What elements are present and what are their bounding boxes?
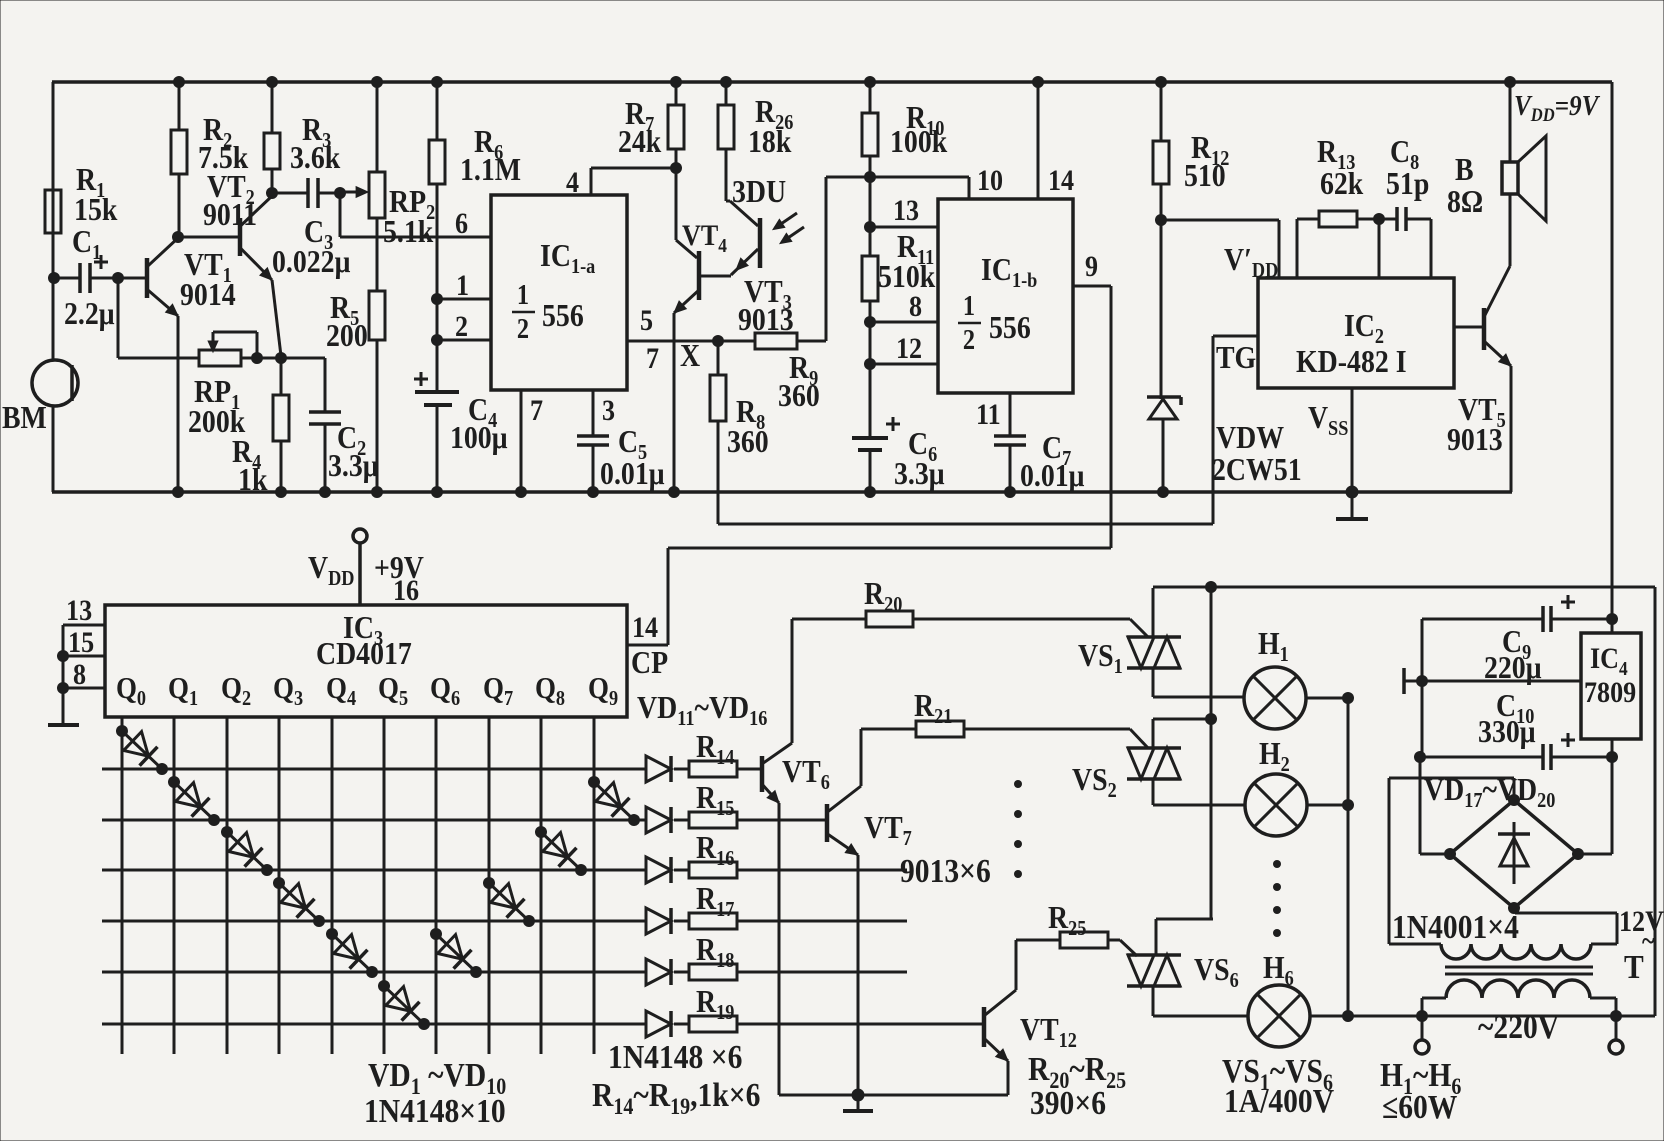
node C1 tap: [48, 272, 60, 284]
node H2 common: [1342, 799, 1354, 811]
svg-text:1N4001×4: 1N4001×4: [1392, 908, 1519, 945]
node R4 top: [275, 352, 287, 364]
wire RP2 wiper arrow: [342, 191, 360, 194]
resistor R7 24k: [668, 105, 684, 149]
transistor VT1: [145, 258, 150, 298]
lamp H1: [1244, 667, 1306, 729]
capacitor C4 100u: [415, 390, 459, 394]
wire pin 15 left: [63, 655, 105, 658]
node R10 bottom: [864, 171, 876, 183]
node VT1 collector R2 junction: [172, 231, 184, 243]
svg-text:3: 3: [602, 394, 615, 427]
wire pin5 X line: [627, 340, 718, 343]
node trunk top: [1205, 581, 1217, 593]
wire pin 13: [870, 226, 938, 229]
svg-text:1k: 1k: [238, 462, 268, 497]
wire VD13 to R16: [674, 869, 689, 872]
svg-text:62k: 62k: [1320, 166, 1364, 201]
svg-text:2: 2: [517, 313, 529, 344]
wire RP1 to R4 node: [241, 357, 281, 360]
wire VS1 MT1 to H1: [1152, 668, 1155, 697]
wire R9 up to pin10 node: [825, 177, 828, 341]
diode VD2: [174, 782, 214, 820]
zener diode VDW 2CW51: [1147, 395, 1181, 399]
svg-text:2.2μ: 2.2μ: [64, 296, 115, 331]
resistor R14: [689, 761, 737, 777]
wire pin 14 CP: [627, 644, 668, 647]
capacitor C10 330u: [1420, 756, 1543, 759]
wire VT2 emitter to R4 node: [272, 280, 281, 356]
svg-text:12: 12: [896, 332, 922, 365]
wire VT6 collector up: [791, 619, 794, 743]
resistor R26 18k: [718, 105, 734, 149]
wire lamp common vertical: [1347, 698, 1350, 1016]
node RP1 wiper join: [251, 352, 263, 364]
svg-text:1: 1: [456, 269, 469, 302]
node C7 ground: [1004, 486, 1016, 498]
resistor R17: [689, 913, 737, 929]
diode VD5: [332, 934, 372, 972]
wire R15 to VT7 base: [737, 819, 825, 822]
wire IC4 bottom: [1611, 739, 1614, 757]
wire pin 3 to C5: [592, 390, 595, 436]
transformer primary coil: [1421, 998, 1424, 1016]
node C10 right: [1606, 751, 1618, 763]
wire Q1 column: [173, 717, 176, 1054]
wire VT7 emitter down: [857, 855, 860, 1095]
svg-text:556: 556: [542, 298, 584, 333]
svg-text:4: 4: [566, 166, 579, 199]
node C2 ground: [319, 486, 331, 498]
wire Q0 column: [121, 717, 124, 1054]
svg-text:9014: 9014: [180, 277, 236, 312]
wire secondary left up: [1388, 778, 1391, 944]
node R10 top bus: [864, 76, 876, 88]
wire C1 to VT1 base: [90, 277, 147, 280]
resistor R19: [689, 1016, 737, 1032]
svg-text:3.6k: 3.6k: [290, 140, 341, 175]
transformer core: [1445, 966, 1593, 969]
wire C6 to ground: [869, 450, 872, 492]
node RP2 top bus: [371, 76, 383, 88]
wire Q6 column: [435, 717, 438, 1054]
resistor R4 1k: [273, 395, 289, 441]
diode VD12: [646, 807, 671, 833]
svg-text:6: 6: [455, 207, 468, 240]
resistor R20 390: [792, 618, 866, 621]
resistor R10 100k: [862, 113, 878, 156]
wire VS2 MT2: [1153, 718, 1211, 721]
resistor R16: [689, 862, 737, 878]
node R7 pin4 junction: [670, 162, 682, 174]
node VT4 emitter ground: [668, 486, 680, 498]
resistor R6 1.1M: [429, 140, 445, 184]
wire C2 to ground: [324, 424, 327, 492]
diode VD6: [384, 986, 424, 1024]
wire top VDD bus: [52, 80, 1612, 84]
svg-text:13: 13: [66, 594, 92, 627]
IC regulator IC4 7809 box: [1581, 633, 1641, 739]
wire AC top line: [1153, 586, 1655, 589]
svg-text:1: 1: [517, 279, 529, 310]
capacitor C6 3.3u: [852, 436, 888, 440]
resistor R18: [689, 964, 737, 980]
svg-text:18k: 18k: [748, 124, 792, 159]
wire bridge left up: [1420, 853, 1450, 856]
resistor R2: [171, 130, 187, 174]
wire node to C2: [281, 357, 325, 360]
potentiometer RP2 5.1k: [369, 172, 385, 218]
svg-text:360: 360: [778, 378, 820, 413]
svg-text:7: 7: [646, 342, 659, 375]
node IC4 gnd tap: [1416, 675, 1428, 687]
wire R14 to VT6 base: [737, 768, 760, 771]
wire speaker feed: [1509, 82, 1512, 162]
wire Q7 column: [488, 717, 491, 1054]
wire left pins common: [62, 625, 65, 725]
resistor R3: [264, 133, 280, 169]
wire VT12 collector up: [1015, 940, 1018, 990]
svg-text:3.3μ: 3.3μ: [894, 456, 945, 491]
transistor VT4: [675, 168, 678, 240]
node trunk VS2: [1205, 713, 1217, 725]
terminal AC right: [1615, 1016, 1618, 1040]
resistor R11 510k: [862, 256, 878, 301]
node R13 C8 junction: [1373, 213, 1385, 225]
svg-text:CP: CP: [631, 645, 668, 680]
svg-text:330μ: 330μ: [1478, 714, 1536, 749]
diode VD4: [279, 883, 319, 921]
triac VS1: [1127, 635, 1181, 639]
svg-text:10: 10: [977, 164, 1003, 197]
wire row 1: [102, 768, 646, 771]
svg-text:510k: 510k: [878, 259, 936, 294]
wire VT12 emitter to ground: [1007, 1061, 1010, 1095]
microphone BM: [32, 360, 78, 406]
wire Q5 column: [383, 717, 386, 1054]
transistor VT5: [1454, 326, 1484, 329]
node C4 ground: [431, 486, 443, 498]
wire Q4 column: [331, 717, 334, 1054]
transistor VT6: [760, 756, 765, 792]
wire triac trunk: [1210, 587, 1213, 919]
triac VS6: [1127, 953, 1181, 957]
wire right vertical 9V down: [1611, 82, 1614, 619]
resistor R15: [689, 812, 737, 828]
node C5 ground: [587, 486, 599, 498]
node neutral primary: [1416, 1010, 1428, 1022]
diode VD16: [646, 1011, 671, 1037]
node VT2 collector R3 junction: [266, 187, 278, 199]
wire Q3 column: [278, 717, 281, 1054]
svg-text:X: X: [680, 338, 700, 373]
wire R19 to VT12 base: [737, 1023, 982, 1026]
capacitor C7 0.01u: [994, 434, 1026, 438]
wire VS6 MT1 to H6: [1152, 986, 1155, 1016]
svg-text:556: 556: [989, 310, 1031, 345]
wire R2 node to VT2 base: [178, 236, 240, 239]
svg-text:1.1M: 1.1M: [460, 152, 521, 187]
potentiometer RP1 200k: [199, 350, 241, 366]
svg-text:3DU: 3DU: [732, 174, 786, 209]
svg-text:8: 8: [909, 290, 922, 323]
wire C7 to ground: [1009, 445, 1012, 492]
wire pin 8: [870, 321, 938, 324]
svg-text:B: B: [1455, 152, 1474, 187]
capacitor C2 3.3u: [309, 410, 341, 414]
diode VD10: [594, 782, 634, 820]
node pin8 junction: [864, 316, 876, 328]
triac VS2: [1127, 746, 1181, 750]
node R7 top bus: [670, 76, 682, 88]
wire secondary right to bridge: [1616, 913, 1619, 944]
wire VS1 MT2: [1152, 588, 1155, 637]
wire VSS to ground: [1351, 388, 1354, 492]
terminal VDD +9V: [353, 529, 367, 543]
svg-text:16: 16: [393, 574, 419, 607]
svg-text:VDW: VDW: [1216, 420, 1284, 455]
wire VD16 to R19: [674, 1023, 689, 1026]
node pin15 join: [57, 650, 69, 662]
node pin7 ground: [515, 486, 527, 498]
wire VT6 emitter down: [778, 803, 781, 1095]
wire row3 tail: [737, 869, 907, 872]
wire pin 14 from bus: [1037, 82, 1040, 199]
svg-text:2CW51: 2CW51: [1212, 452, 1302, 487]
svg-text:8Ω: 8Ω: [1447, 184, 1483, 219]
node C6 ground: [864, 486, 876, 498]
capacitor C9 220u: [1422, 618, 1543, 621]
node hot primary: [1610, 1010, 1622, 1022]
wire Q2 column: [226, 717, 229, 1054]
svg-text:~: ~: [1642, 925, 1655, 956]
wire neutral line: [1348, 1015, 1616, 1018]
wire zener column: [1160, 220, 1163, 399]
svg-text:0.022μ: 0.022μ: [272, 244, 350, 279]
svg-text:2: 2: [455, 310, 468, 343]
node pin8 join: [57, 682, 69, 694]
wire left vertical from bus to microphone: [52, 82, 55, 361]
wire Q8 column: [540, 717, 543, 1054]
svg-text:0.01μ: 0.01μ: [600, 456, 664, 491]
transistor VT3 phototransistor: [726, 200, 730, 203]
svg-text:CD4017: CD4017: [316, 636, 412, 671]
node VT1 base: [112, 272, 124, 284]
wire AC right down: [1654, 587, 1657, 1016]
wire C5 to ground: [592, 445, 595, 492]
wire row 4: [102, 920, 646, 923]
svg-text:7809: 7809: [1584, 676, 1636, 709]
wire pin 1: [437, 298, 491, 301]
resistor R9 360: [718, 340, 755, 343]
node emitter common ground: [852, 1089, 865, 1102]
node R6 top bus: [431, 76, 443, 88]
wire base node down to RP1: [117, 278, 120, 358]
node pin14 top bus: [1032, 76, 1044, 88]
svg-text:5.1k: 5.1k: [383, 214, 434, 249]
ground symbol VSS: [1351, 492, 1354, 519]
svg-text:9011: 9011: [203, 197, 257, 232]
node R4 ground: [275, 486, 287, 498]
wire VS2 MT1 to H2: [1152, 779, 1155, 805]
svg-text:TG: TG: [1216, 340, 1256, 375]
terminal AC left: [1421, 1016, 1424, 1040]
wire pin 10 step: [968, 177, 971, 199]
wire bridge bottom right: [1513, 908, 1516, 913]
wire row 3: [102, 869, 646, 872]
svg-text:15: 15: [68, 626, 94, 659]
svg-text:15k: 15k: [74, 192, 118, 227]
node pin2 junction: [431, 334, 443, 346]
node zener ground: [1157, 486, 1169, 498]
node VT1 emitter ground: [172, 486, 184, 498]
svg-text:11: 11: [976, 398, 1001, 431]
svg-text:24k: 24k: [618, 124, 662, 159]
IC op-amp IC1-a box: [491, 195, 627, 390]
wire H1 right: [1306, 697, 1348, 700]
wire VT4 emitter down: [673, 313, 676, 492]
diode VD9: [541, 832, 581, 870]
svg-text:1A/400V: 1A/400V: [1224, 1082, 1334, 1119]
node C9 right: [1606, 613, 1618, 625]
wire row 6: [102, 1023, 646, 1026]
ellipsis between VT7 VT12: [1014, 780, 1022, 788]
svg-text:BM: BM: [2, 400, 47, 435]
node R2 top bus: [173, 76, 185, 88]
capacitor C8 51p: [1379, 218, 1397, 221]
node R26 top bus: [720, 76, 732, 88]
wire C4 to ground: [436, 405, 439, 492]
bridge rectifier VD17-VD20: [1450, 800, 1578, 908]
wire VT4 base to VT3 emitter: [699, 275, 731, 278]
node X: [712, 335, 724, 347]
capacitor C1 2.2u: [78, 263, 82, 293]
IC counter IC3 CD4017 box: [105, 605, 627, 717]
wire row5 tail: [737, 971, 907, 974]
resistor R25 390: [1016, 939, 1060, 942]
wire VD12 to R15: [674, 819, 689, 822]
wire H6 right: [1310, 1015, 1348, 1018]
svg-text:T: T: [1624, 948, 1644, 985]
wire VD11 to R14: [674, 768, 689, 771]
diode VD13: [646, 857, 671, 883]
diode VD7: [436, 934, 476, 972]
transistor VT12: [982, 1007, 987, 1047]
svg-text:VD17~VD20: VD17~VD20: [1424, 772, 1556, 812]
svg-text:~220V: ~220V: [1478, 1008, 1559, 1045]
wire VT7 collector up: [860, 729, 863, 786]
lamp H6: [1248, 985, 1310, 1047]
node R12 top bus: [1155, 76, 1167, 88]
svg-text:1N4148 ×6: 1N4148 ×6: [608, 1038, 742, 1075]
node H1 common: [1342, 692, 1354, 704]
svg-text:200: 200: [326, 318, 368, 353]
svg-text:390×6: 390×6: [1030, 1084, 1106, 1121]
wire H2 right: [1307, 804, 1348, 807]
wire VT1 emitter down: [177, 316, 180, 492]
node pin1 junction: [431, 293, 443, 305]
svg-text:1N4148×10: 1N4148×10: [364, 1092, 506, 1129]
svg-text:KD-482 I: KD-482 I: [1296, 344, 1407, 379]
svg-text:51p: 51p: [1386, 166, 1429, 201]
lamp H2: [1245, 774, 1307, 836]
wire pin 7 to ground: [520, 390, 523, 492]
node C10 left: [1414, 751, 1426, 763]
node pin13 junction: [864, 221, 876, 233]
wire pin 4: [590, 168, 593, 195]
wire VD15 to R18: [674, 971, 689, 974]
resistor R12 510: [1153, 141, 1169, 184]
wire pin 8 left: [63, 687, 105, 690]
svg-text:VD11~VD16: VD11~VD16: [637, 690, 768, 730]
node speaker top bus: [1504, 76, 1516, 88]
svg-text:2: 2: [963, 324, 975, 355]
svg-text:VDD=9V: VDD=9V: [1514, 89, 1600, 125]
wire row 5: [102, 971, 646, 974]
svg-text:1: 1: [963, 290, 975, 321]
transformer secondary coil: [1441, 944, 1591, 959]
wire R3 node to C3: [272, 192, 308, 195]
capacitor C5 0.01u: [577, 434, 609, 438]
speaker B: [1502, 162, 1518, 194]
capacitor C3 0.022u: [306, 178, 310, 208]
wire C3 to RP2 wiper node: [318, 192, 340, 195]
resistor R1: [45, 190, 61, 233]
wire pin 9: [1073, 285, 1111, 288]
wire row 2: [102, 819, 646, 822]
wire bottom ground bus: [52, 490, 1512, 494]
wire TG line: [718, 523, 1213, 526]
svg-text:9013: 9013: [1447, 422, 1503, 457]
svg-text:8: 8: [73, 658, 86, 691]
wire Q9 column: [593, 717, 596, 1054]
resistor R13 62k: [1296, 219, 1299, 278]
svg-text:510: 510: [1184, 158, 1226, 193]
node H6 common: [1342, 1010, 1354, 1022]
wire pin 13 left: [63, 624, 105, 627]
svg-text:≤60W: ≤60W: [1382, 1088, 1458, 1125]
transistor VT7: [825, 804, 830, 842]
ground symbol VT7: [857, 1095, 860, 1111]
node VSS ground: [1346, 486, 1359, 499]
wire pin 11 to C7: [1009, 393, 1012, 436]
resistor R21 390: [861, 728, 916, 731]
wire VDD' line: [1161, 219, 1279, 222]
resistor R8 360: [717, 341, 720, 375]
svg-text:14: 14: [632, 611, 658, 644]
diode VD11: [646, 756, 671, 782]
node R12 zener junction: [1155, 214, 1167, 226]
diode VD3: [227, 832, 267, 870]
wire IC4 gnd: [1404, 680, 1581, 683]
wire C1 left lead: [54, 277, 80, 280]
svg-text:14: 14: [1048, 164, 1074, 197]
wire pin 12: [870, 363, 938, 366]
resistor R5 200: [369, 291, 385, 340]
IC IC2 KD-482 box: [1258, 278, 1454, 388]
wire VS6 MT2: [1156, 918, 1213, 921]
svg-text:360: 360: [727, 424, 769, 459]
svg-text:7: 7: [530, 394, 543, 427]
IC timer IC1-b box: [938, 199, 1073, 393]
svg-text:13: 13: [893, 194, 919, 227]
node R5 ground: [371, 486, 383, 498]
wire IC4 top: [1611, 619, 1614, 633]
node R3 top bus: [266, 76, 278, 88]
wire pin6 line: [339, 193, 342, 237]
diode VD14: [646, 908, 671, 934]
svg-text:3.3μ: 3.3μ: [328, 448, 379, 483]
